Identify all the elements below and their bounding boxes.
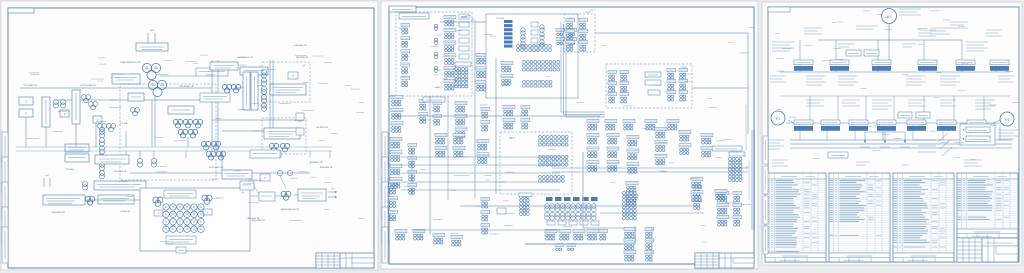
BR tall stack <box>655 127 667 164</box>
switch boxes upper right <box>210 62 238 70</box>
chain transformer mid <box>131 108 140 116</box>
stack left of bottom grid <box>481 197 490 234</box>
RP5 left stacks <box>608 70 629 103</box>
KL feeder wire top <box>440 19 486 22</box>
BL stack c2 <box>408 143 417 194</box>
RP4 group col B <box>579 18 588 51</box>
disconnector box QS1 <box>136 43 168 51</box>
lower row stub wires <box>810 96 984 120</box>
switch boxes upper right 2 <box>240 67 268 75</box>
RU2 label <box>510 138 516 140</box>
LL stack 1 <box>391 95 403 132</box>
mid transformer grid <box>173 119 202 138</box>
RP-3 label <box>390 96 396 98</box>
switch box R3b <box>296 128 304 135</box>
TP paired circle row <box>517 45 552 52</box>
bottom schematic boxes <box>828 152 848 158</box>
bus drops <box>100 151 330 158</box>
top distribution wire <box>818 24 962 40</box>
cluster 2x2 bottom left of RU <box>201 141 225 160</box>
lower box row <box>794 120 986 131</box>
vertical feeders to bus <box>26 100 188 147</box>
svg-text:ТП-1(2): ТП-1(2) <box>496 18 504 20</box>
svg-text:Д ТРН-6300 ТН: Д ТРН-6300 ТН <box>80 85 96 87</box>
svg-text:АДЦР-6000-160 ТВ: АДЦР-6000-160 ТВ <box>281 208 299 211</box>
bus horizontals <box>396 116 704 230</box>
GPP label box <box>399 13 429 19</box>
transformer pair above chain <box>83 182 88 190</box>
RP5 enclosure <box>606 64 692 108</box>
right circles pair <box>277 170 292 175</box>
svg-text:Ж-2: Ж-2 <box>887 16 892 19</box>
circle column TP 2 <box>540 25 544 47</box>
incoming feeders arrows <box>148 30 155 43</box>
bottom small groups <box>555 243 576 250</box>
central bank grid <box>163 204 204 233</box>
circle column TP <box>521 28 525 49</box>
right vertical chain <box>262 70 267 112</box>
speckle sheet3 top <box>775 11 1019 165</box>
svg-text:РУ-6300: РУ-6300 <box>66 169 75 171</box>
BR lower stacks <box>691 177 727 201</box>
under-RP4 cluster row <box>587 119 679 130</box>
label OTDN above <box>120 62 141 64</box>
transformer cluster RU6 <box>98 123 129 132</box>
central vertical chain <box>100 130 105 179</box>
svg-text:РН-6300 ТВ: РН-6300 ТВ <box>296 57 309 59</box>
TP-3 label box <box>423 97 445 102</box>
equipment table 2 <box>829 173 890 262</box>
sheet 3 left margin stamps <box>763 136 768 254</box>
right circle Zh-2b <box>1000 112 1014 126</box>
label boxes mid-left 2 <box>65 154 89 162</box>
vertical wire 412 <box>411 150 413 196</box>
switch box L1 <box>19 97 33 105</box>
transformer TL2 cluster <box>82 95 98 110</box>
enclosure B label <box>299 121 303 123</box>
left col lower stack <box>389 183 398 220</box>
bottom groups right col <box>645 227 654 261</box>
top circle annotations <box>899 9 921 15</box>
label A TR <box>209 166 223 169</box>
sheet 2 top-left stamp <box>389 6 416 12</box>
svg-text:РУ-2: РУ-2 <box>510 138 516 140</box>
LL stack 2b <box>433 101 442 125</box>
BL mid cluster <box>477 139 489 163</box>
svg-text:д.с: д.с <box>242 192 245 194</box>
mid white boxes row <box>898 112 930 118</box>
PPV label box <box>712 146 742 151</box>
flank transformer left <box>153 197 163 216</box>
GPP stack B <box>444 15 456 90</box>
LL stack 2 <box>419 99 428 123</box>
formula above tables <box>766 140 982 166</box>
GPP loose circles col <box>431 24 448 88</box>
mid horizontal wire <box>780 72 1010 96</box>
lower row connecting wire <box>786 122 1000 124</box>
main bus double <box>16 147 332 151</box>
lower long wire <box>130 172 310 174</box>
upper row stub wires <box>800 66 996 73</box>
BL stack c1 <box>390 137 402 188</box>
small box left of TP8 <box>497 208 506 214</box>
equipment table 4 <box>957 173 1018 238</box>
bottom small cluster left <box>519 193 532 215</box>
bus riser rect B <box>72 90 80 124</box>
sheet 1 top-left stamp <box>8 8 34 13</box>
TP left groups lower <box>501 61 513 85</box>
bottom-left small clusters <box>395 229 463 246</box>
dark breaker stack <box>504 20 513 48</box>
right edge vertical annotations <box>746 105 749 200</box>
RP1 label <box>455 62 471 66</box>
BR stack 3 <box>627 135 639 173</box>
svg-text:Ж-3: Ж-3 <box>776 118 781 121</box>
central enclosure <box>140 188 250 251</box>
main transformer T1 upper <box>142 63 160 79</box>
TP-8 header boxes row <box>546 197 598 201</box>
top left annotations <box>856 26 878 29</box>
RP4 enclosure <box>564 14 595 52</box>
svg-text:ОТР-6300 ТВ: ОТР-6300 ТВ <box>23 85 37 87</box>
label RN right <box>316 127 328 129</box>
bottom stack mid dark <box>623 192 637 220</box>
KL wire fan <box>401 157 560 190</box>
switch box L3 <box>60 110 69 117</box>
RP4 label <box>586 12 592 14</box>
RU enclosure dashed <box>120 84 216 180</box>
svg-text:Р-6000 ТВ: Р-6000 ТВ <box>120 211 131 213</box>
RU2 rows A <box>539 136 569 147</box>
svg-text:РН-6300 ТВ: РН-6300 ТВ <box>316 127 328 129</box>
label boxes mid-left <box>65 144 89 152</box>
BR stack 1 <box>587 133 599 171</box>
RU2 enclosure <box>500 132 572 194</box>
RP5 right stacks <box>667 68 688 101</box>
svg-text:ЭТН-6300 ТВ: ЭТН-6300 ТВ <box>51 212 65 214</box>
label R-6000 left of enclosure <box>120 211 131 213</box>
label ERN right of enclosure <box>252 220 266 222</box>
equipment table 1 <box>765 173 826 262</box>
PPV dense patch <box>729 152 745 181</box>
switch box L2 <box>19 109 33 117</box>
stack right of GPP <box>476 53 488 91</box>
svg-text:ДТН-6300 ТВ: ДТН-6300 ТВ <box>320 167 333 169</box>
label OTR left edge <box>23 85 37 87</box>
upper row drop wires <box>800 40 962 60</box>
TP-8 transformer rows <box>545 204 596 220</box>
label TVN <box>247 218 260 220</box>
BR stack 2 <box>607 133 619 171</box>
left 2-line label box <box>112 74 140 84</box>
svg-text:ОТР-6300 ТВ: ОТР-6300 ТВ <box>249 180 262 182</box>
svg-text:ОТР-63000 ТВ: ОТР-63000 ТВ <box>179 86 194 88</box>
chain box A right <box>240 181 254 190</box>
flank transformer right <box>202 195 212 215</box>
GPP enclosure <box>396 12 472 96</box>
upper right label TRN <box>237 57 308 59</box>
left circle Zh-3 <box>771 111 785 125</box>
formula block far right <box>998 130 1018 139</box>
speckle sheet2 <box>398 10 753 242</box>
sheet 2 paper <box>381 1 758 269</box>
RP4 group col A <box>566 18 575 51</box>
svg-text:РУ-6кВ: РУ-6кВ <box>121 123 128 125</box>
upper formula blocks <box>772 22 1002 51</box>
LL stack 3 <box>455 101 467 137</box>
bus verticals <box>430 20 496 234</box>
RU2 rows C <box>539 176 565 183</box>
RP5 label <box>682 67 688 69</box>
LL stack 2c <box>481 107 490 131</box>
upper-left wire mesh <box>20 60 218 152</box>
sheet 3 top-left stamp <box>768 7 790 12</box>
sheet 1 paper <box>1 1 378 270</box>
mid formula blocks <box>770 76 1014 109</box>
arrow bottom-left <box>44 175 50 187</box>
bottom stack mid groups <box>624 227 636 261</box>
TP big rows 2 <box>523 61 560 72</box>
switch box L4 <box>93 116 102 123</box>
double bus riser right <box>243 72 258 110</box>
switch box R1 <box>288 72 298 79</box>
lower wire bundle <box>790 140 1012 148</box>
svg-text:ЭРН-6300 ТВ: ЭРН-6300 ТВ <box>252 220 266 222</box>
ShSU 2-line box <box>298 189 326 201</box>
sheet 3 paper <box>762 2 1022 265</box>
outgoing arrows <box>328 188 337 198</box>
bus riser rect A <box>42 97 50 127</box>
GPP stack A <box>401 23 410 86</box>
TP hall enclosure <box>486 14 578 98</box>
wires bottom center <box>85 151 298 200</box>
bordered box group right <box>960 124 995 145</box>
sheet 2 left margin stamps <box>382 132 388 263</box>
transformer under bus 2 <box>151 158 156 167</box>
label RU-6000 upper <box>250 150 323 164</box>
chain transformer cluster right <box>281 191 291 200</box>
mid labels TRDN <box>200 93 230 102</box>
sheet 1 title block <box>316 253 374 268</box>
upper right boxes of cluster <box>222 170 252 179</box>
speckle sheet1 lower <box>118 166 364 243</box>
label x RN-6300 <box>293 45 307 47</box>
main transformer T1 lower <box>148 80 166 96</box>
enclosure B transformer cluster <box>269 143 289 152</box>
svg-text:РП-4: РП-4 <box>586 12 592 14</box>
mid small box pair <box>846 50 879 56</box>
thick light bus bottom <box>525 226 652 262</box>
speckle sheet1 upper <box>27 55 364 141</box>
sheet 3 title block <box>957 238 1018 262</box>
central top label box <box>164 190 196 198</box>
TP-8 bottom boxes <box>547 221 599 225</box>
transformer under bus 1 <box>137 158 142 167</box>
label ETN below <box>51 212 65 214</box>
svg-text:У: У <box>25 100 27 104</box>
bottom-left label box B <box>98 195 134 204</box>
svg-text:РП-3: РП-3 <box>390 96 396 98</box>
chain transformer cluster <box>85 196 95 205</box>
enclosure B label box <box>264 128 300 139</box>
label OTR right of T1 <box>179 86 194 88</box>
RP1 cluster <box>455 68 468 88</box>
wide label box left of enclosure <box>94 181 146 190</box>
wires right mid <box>212 60 300 131</box>
sheet 1 left margin stamps <box>2 132 8 263</box>
mid horizontal wires right <box>552 168 748 172</box>
svg-text:У: У <box>25 112 27 116</box>
svg-text:ОТДН-25000/110 ТВ: ОТДН-25000/110 ТВ <box>120 62 141 64</box>
label ADTsR <box>281 208 299 211</box>
small bottom box <box>176 247 186 253</box>
small box above enclosure <box>260 174 270 181</box>
PPV stacks <box>693 185 742 226</box>
RP5 mid boxes <box>645 72 661 95</box>
box column TP <box>531 22 538 51</box>
left wire bundle L <box>561 22 605 117</box>
sheet 1 frame <box>8 8 374 268</box>
TP big rows 3 <box>523 81 553 88</box>
svg-text:А ТР-6300 ТВ: А ТР-6300 ТВ <box>209 166 223 169</box>
label TRN mid <box>80 85 96 87</box>
enclosure corner label <box>242 192 245 194</box>
label DTN bottom <box>320 167 333 169</box>
LL stack 4 <box>503 105 530 129</box>
wire T1 to bus <box>155 76 196 147</box>
box above chain <box>128 93 144 101</box>
sheet 2 frame <box>389 7 754 264</box>
svg-text:ТВН-6000 ТЦ: ТВН-6000 ТЦ <box>247 218 260 220</box>
box mid under bus <box>95 155 129 164</box>
enclosure B right dashed <box>262 118 306 154</box>
BR stack 5 <box>679 130 691 154</box>
GPP switch column <box>459 14 469 59</box>
mid wire right <box>692 87 748 89</box>
sheet 2 title block <box>695 253 754 268</box>
right edge vertical wires <box>752 130 755 230</box>
svg-text:Ж-2: Ж-2 <box>1005 119 1010 122</box>
BL top cluster <box>435 133 465 157</box>
labels below bus <box>66 169 262 182</box>
svg-text:х РН-6300 ТВ: х РН-6300 ТВ <box>293 45 307 47</box>
enclosure A right dashed <box>262 62 310 102</box>
TP hall label <box>496 18 574 20</box>
diagonal leaders SDN <box>914 133 952 156</box>
RU2 rows B <box>539 156 569 167</box>
TP right groups <box>556 28 577 44</box>
KL wire labels <box>450 157 559 191</box>
bottom group row B <box>545 229 608 240</box>
top right label box wide <box>196 68 228 76</box>
sheet 3 frame <box>768 7 1019 262</box>
leads to circles <box>788 120 1000 123</box>
top long wire right <box>595 33 748 134</box>
central bottom box <box>166 236 196 244</box>
svg-text:ОТР-6000 ТВ: ОТР-6000 ТВ <box>114 171 127 173</box>
label box right 2line <box>270 84 306 95</box>
feeder box F1 <box>168 106 194 114</box>
svg-text:ДТН-6000 ТВ: ДТН-6000 ТВ <box>310 162 323 164</box>
enclosure A label <box>303 65 307 67</box>
RP6 stack <box>626 181 638 205</box>
light bus L path <box>583 152 625 228</box>
upper box row <box>794 60 1009 71</box>
chain box B right <box>259 192 275 201</box>
motor drop tree <box>860 132 910 147</box>
transformer T2 cluster <box>222 84 240 93</box>
source circle Zh-2 top <box>882 9 897 24</box>
switch box R3a <box>296 113 304 120</box>
PPV stack top <box>701 133 713 157</box>
bottom-left label box A <box>43 195 85 205</box>
transformer TL1 <box>54 100 66 108</box>
drops from lower boxes <box>800 126 1000 141</box>
equipment table 3 <box>893 173 954 262</box>
